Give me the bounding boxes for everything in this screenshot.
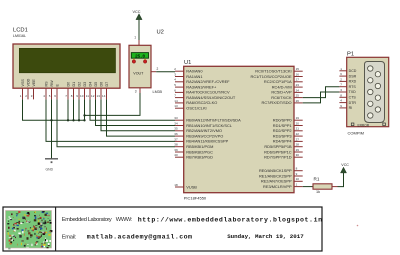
svg-text:RA3/AN3/VREF+: RA3/AN3/VREF+ <box>186 84 217 89</box>
svg-text:VCC: VCC <box>133 10 141 14</box>
svg-text:RC2/CCP1/P1A: RC2/CCP1/P1A <box>264 79 292 84</box>
svg-text:15: 15 <box>296 67 300 71</box>
svg-text:RB5/KBI1/PGM: RB5/KBI1/PGM <box>186 144 213 149</box>
svg-text:9: 9 <box>340 104 342 108</box>
svg-text:D5: D5 <box>94 82 98 87</box>
svg-text:LM016L: LM016L <box>13 34 26 38</box>
svg-text:PIC18F4550: PIC18F4550 <box>184 196 207 201</box>
svg-text:11: 11 <box>86 94 89 98</box>
svg-text:1k: 1k <box>316 190 320 194</box>
svg-text:1: 1 <box>340 67 342 71</box>
svg-text:LM35: LM35 <box>153 90 163 94</box>
svg-text:39: 39 <box>174 148 178 152</box>
svg-text:35: 35 <box>174 127 178 131</box>
svg-text:7: 7 <box>174 94 176 98</box>
svg-text:3: 3 <box>174 72 176 76</box>
svg-text:RC1/T1OSI/CCP2/UOE: RC1/T1OSI/CCP2/UOE <box>251 74 292 79</box>
svg-text:18: 18 <box>174 183 178 187</box>
svg-text:8: 8 <box>296 167 298 171</box>
svg-text:7: 7 <box>340 83 342 87</box>
svg-text:RE3/MCLR/VPP: RE3/MCLR/VPP <box>263 184 292 189</box>
svg-text:RS: RS <box>44 81 48 87</box>
svg-text:VOUT: VOUT <box>133 72 144 76</box>
svg-text:13: 13 <box>97 94 101 98</box>
svg-text:D3: D3 <box>83 82 87 87</box>
svg-text:RE2/AN7/OESPP: RE2/AN7/OESPP <box>261 179 292 184</box>
svg-text:5: 5 <box>49 94 51 98</box>
svg-text:TXD: TXD <box>349 90 357 94</box>
svg-text:RD1/SPP1: RD1/SPP1 <box>273 123 292 128</box>
svg-text:2: 2 <box>157 67 159 71</box>
svg-text:RC4/D-/VM: RC4/D-/VM <box>272 84 292 89</box>
svg-text:16: 16 <box>296 72 300 76</box>
svg-text:28: 28 <box>296 143 300 147</box>
svg-text:3: 3 <box>135 90 137 94</box>
svg-text:RC0/T1OSO/T13CKI: RC0/T1OSO/T13CKI <box>255 69 291 74</box>
svg-text:RA6/OSC2/CLKO: RA6/OSC2/CLKO <box>186 100 217 105</box>
svg-text:40: 40 <box>174 153 178 157</box>
svg-text:D1: D1 <box>72 82 76 87</box>
svg-text:LCD1: LCD1 <box>13 28 28 34</box>
svg-text:ERROR: ERROR <box>358 123 370 127</box>
svg-text:U2: U2 <box>157 30 164 36</box>
svg-text:1: 1 <box>134 36 136 40</box>
svg-text:matlab.academy@gmail.com: matlab.academy@gmail.com <box>87 234 193 241</box>
svg-text:1: 1 <box>20 94 22 98</box>
svg-text:RD3/SPP3: RD3/SPP3 <box>273 133 292 138</box>
svg-text:9: 9 <box>296 172 298 176</box>
svg-text:RB0/AN12/INT0/FLT0/SDI/SDA: RB0/AN12/INT0/FLT0/SDI/SDA <box>186 118 241 123</box>
svg-text:24: 24 <box>296 88 300 92</box>
svg-text:D4: D4 <box>88 82 92 87</box>
svg-text:Email:: Email: <box>62 234 77 240</box>
svg-text:RA1/AN1: RA1/AN1 <box>186 74 202 79</box>
svg-text:VEE: VEE <box>32 79 36 87</box>
svg-text:D0: D0 <box>66 82 70 87</box>
svg-text:DTR: DTR <box>349 101 357 105</box>
svg-text:RC6/TX/CK: RC6/TX/CK <box>271 95 292 100</box>
svg-text:23: 23 <box>296 83 300 87</box>
svg-text:3: 3 <box>31 94 33 98</box>
svg-text:VCC: VCC <box>341 163 349 167</box>
svg-text:37: 37 <box>174 137 178 141</box>
svg-text:RB4/AN11/KBI0/CSSPP: RB4/AN11/KBI0/CSSPP <box>186 139 228 144</box>
svg-text:6: 6 <box>54 94 56 98</box>
svg-text:27: 27 <box>296 137 300 141</box>
svg-text:22: 22 <box>296 132 300 136</box>
svg-text:RXD: RXD <box>349 80 357 84</box>
svg-text:R1: R1 <box>314 176 320 181</box>
svg-text:4: 4 <box>43 94 45 98</box>
svg-text:29: 29 <box>296 148 300 152</box>
svg-text:RC7/RX/DT/SDO: RC7/RX/DT/SDO <box>262 100 292 105</box>
svg-text:VSS: VSS <box>21 79 25 87</box>
svg-text:RD0/SPP0: RD0/SPP0 <box>273 118 293 123</box>
svg-text:RI: RI <box>349 106 353 110</box>
svg-text:4: 4 <box>340 99 342 103</box>
svg-text:RD4/SPP4: RD4/SPP4 <box>273 139 293 144</box>
svg-text:13: 13 <box>174 104 178 108</box>
svg-text:OSC1/CLKI: OSC1/CLKI <box>186 106 206 111</box>
svg-text:RB1/AN10/INT1/SCK/SCL: RB1/AN10/INT1/SCK/SCL <box>186 123 232 128</box>
svg-text:6: 6 <box>340 72 342 76</box>
svg-text:RA0/AN0: RA0/AN0 <box>186 69 203 74</box>
svg-text:RTS: RTS <box>349 85 357 89</box>
svg-text:DSR: DSR <box>349 74 357 78</box>
svg-text:VDD: VDD <box>26 78 30 86</box>
svg-text:RB2/AN8/INT2/VMO: RB2/AN8/INT2/VMO <box>186 128 222 133</box>
svg-text:RD5/SPP5/P1B: RD5/SPP5/P1B <box>264 144 292 149</box>
svg-text:20: 20 <box>296 121 300 125</box>
svg-text:RA2/AN2/VREF-/CVREF: RA2/AN2/VREF-/CVREF <box>186 79 230 84</box>
svg-text:7: 7 <box>65 94 67 98</box>
svg-text:10: 10 <box>296 177 300 181</box>
svg-text:D6: D6 <box>99 82 103 87</box>
svg-text:19: 19 <box>296 116 300 120</box>
svg-text:U1: U1 <box>184 60 191 66</box>
svg-text:Embedded Laboratory: Embedded Laboratory <box>62 217 112 223</box>
svg-text:17: 17 <box>296 78 300 82</box>
svg-text:2: 2 <box>340 77 342 81</box>
svg-text:RA5/AN4/SS/LVDIN/C2OUT: RA5/AN4/SS/LVDIN/C2OUT <box>186 95 236 100</box>
svg-text:WWW:: WWW: <box>116 217 133 223</box>
svg-text:38: 38 <box>174 143 178 147</box>
svg-text:25: 25 <box>296 94 300 98</box>
svg-text:D2: D2 <box>77 82 81 87</box>
svg-text:8: 8 <box>340 93 342 97</box>
svg-text:COMPIM: COMPIM <box>348 131 364 136</box>
svg-text:2: 2 <box>25 94 27 98</box>
svg-text:RE0/AN5/CK1SPP: RE0/AN5/CK1SPP <box>259 168 292 173</box>
svg-text:http://www.embeddedlaboratory.: http://www.embeddedlaboratory.blogspot.i… <box>138 216 323 223</box>
svg-text:VUSB: VUSB <box>186 184 197 189</box>
svg-text:GND: GND <box>46 168 54 172</box>
svg-text:P1: P1 <box>347 52 354 58</box>
svg-text:8: 8 <box>71 94 73 98</box>
svg-text:36: 36 <box>174 132 178 136</box>
svg-text:DCD: DCD <box>349 69 357 73</box>
svg-text:3: 3 <box>340 88 342 92</box>
svg-text:D7: D7 <box>105 82 109 87</box>
svg-text:12: 12 <box>91 94 95 98</box>
svg-text:RD7/SPP7/P1D: RD7/SPP7/P1D <box>264 155 292 160</box>
svg-text:RB3/AN9/CCP2/VPO: RB3/AN9/CCP2/VPO <box>186 133 223 138</box>
svg-text:14: 14 <box>174 99 178 103</box>
svg-text:30: 30 <box>296 153 300 157</box>
svg-text:RB7/KBI3/PGD: RB7/KBI3/PGD <box>186 155 213 160</box>
svg-text:6: 6 <box>174 88 176 92</box>
svg-text:RW: RW <box>50 80 54 87</box>
svg-text:Sunday, March 19, 2017: Sunday, March 19, 2017 <box>227 233 304 240</box>
svg-text:14: 14 <box>102 94 106 98</box>
svg-text:RE1/AN6/CK2SPP: RE1/AN6/CK2SPP <box>259 173 292 178</box>
svg-text:21: 21 <box>296 127 300 131</box>
svg-text:2: 2 <box>174 67 176 71</box>
svg-text:34: 34 <box>174 121 178 125</box>
svg-text:10: 10 <box>80 94 84 98</box>
svg-text:5: 5 <box>174 83 176 87</box>
svg-text:26: 26 <box>296 99 300 103</box>
svg-text:CTS: CTS <box>349 96 357 100</box>
svg-text:1: 1 <box>296 183 298 187</box>
svg-text:4: 4 <box>174 78 176 82</box>
svg-text:RD2/SPP2: RD2/SPP2 <box>273 128 292 133</box>
svg-text:33: 33 <box>174 116 178 120</box>
svg-text:9: 9 <box>76 94 78 98</box>
svg-text:25.0: 25.0 <box>135 53 145 59</box>
